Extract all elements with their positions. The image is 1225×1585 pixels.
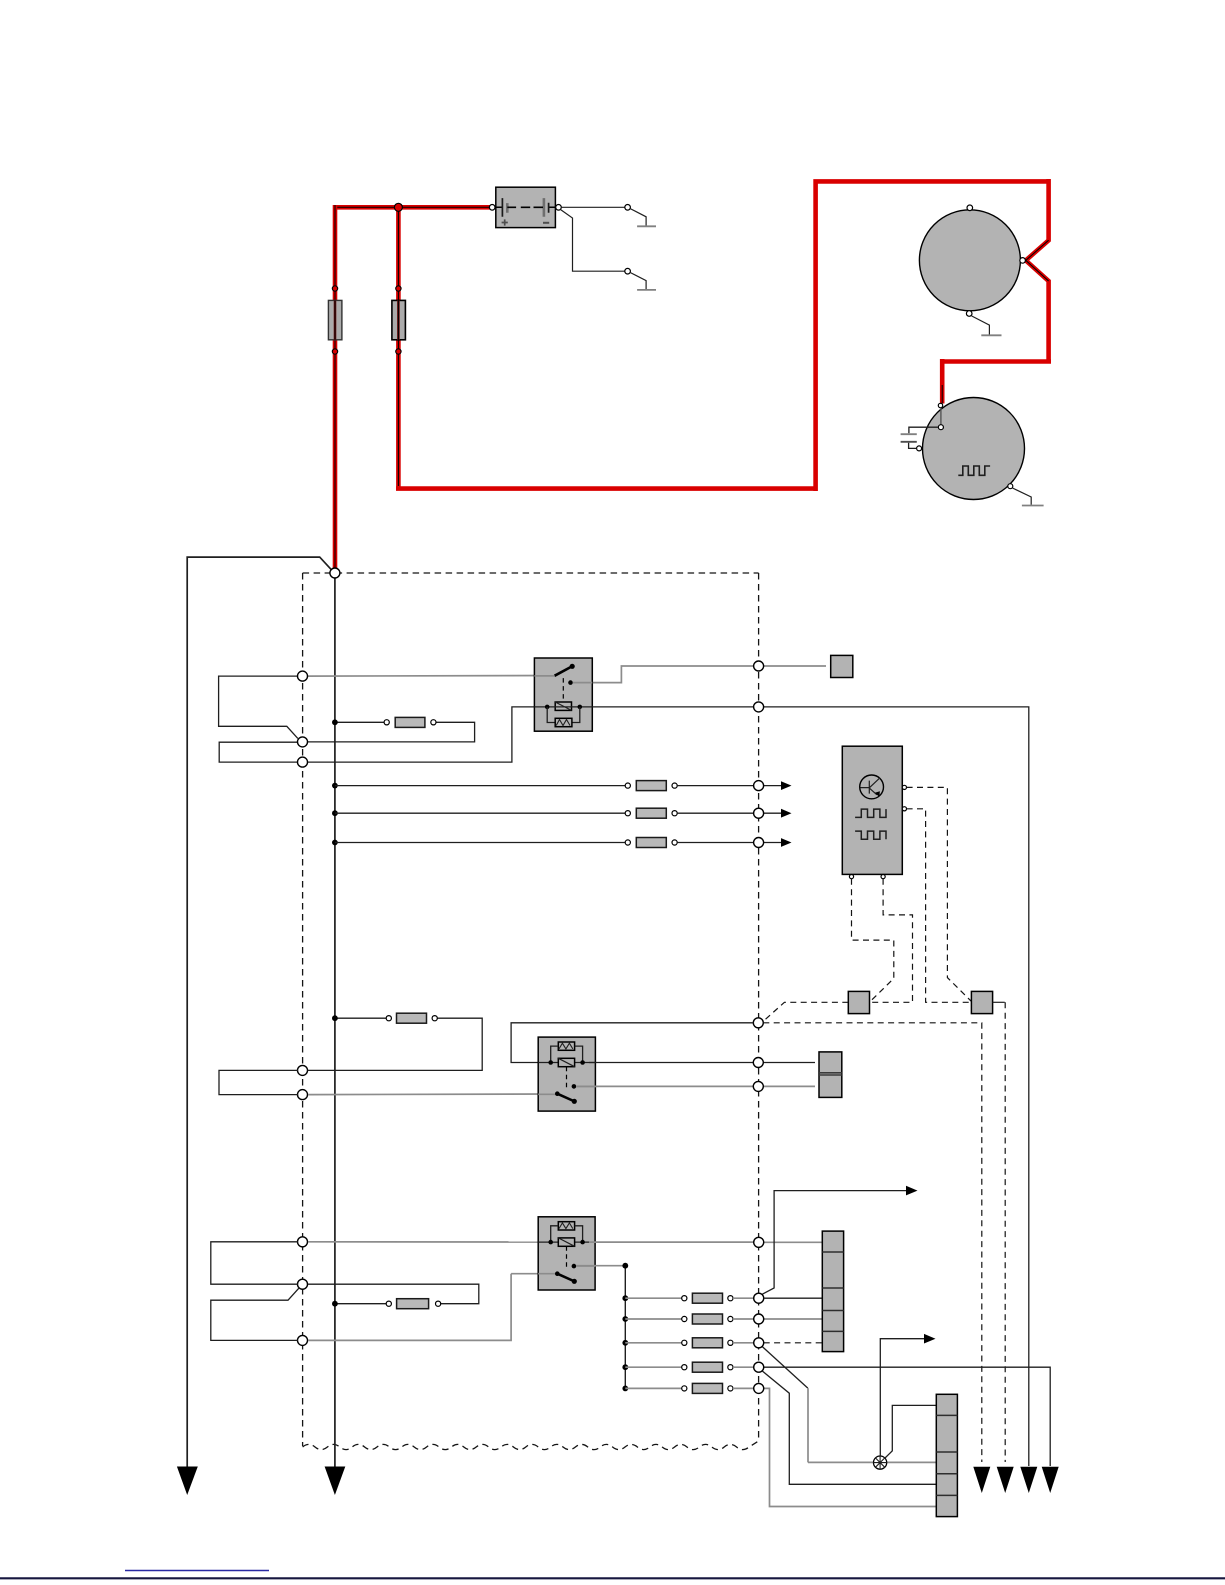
lamp H1 [874, 1456, 887, 1469]
fused line B1 [625, 1293, 753, 1303]
wire relay K1 coil to arrow 3 [592, 707, 1037, 1493]
node left edge fuse return K2 [298, 1065, 308, 1075]
connector X2 two-pole [819, 1052, 842, 1098]
node right edge K1 output [754, 661, 764, 671]
junction dots distribution [622, 1263, 628, 1392]
node left edge fuse return K1 [298, 737, 308, 747]
starter motor M1 [919, 205, 1025, 316]
wire battery negative to switch S1 [561, 206, 624, 208]
wire relay K3 coil feed [308, 1241, 545, 1243]
node B5 [754, 1383, 764, 1393]
wire fuse loop K1 [308, 722, 475, 742]
node K2 coil circuit [753, 1018, 763, 1028]
node B4 [754, 1362, 764, 1372]
wire fuse loop K3 [308, 1284, 479, 1304]
node left edge coil feed K1 [298, 757, 308, 767]
wire relay K1 contact output [572, 666, 826, 683]
wire lamp to right arrow [880, 1334, 935, 1456]
wire node B1 to up arrow [762, 1186, 917, 1294]
fused line B4 [625, 1362, 753, 1372]
fuse F3 [384, 717, 436, 727]
fused circuit line 2 [332, 808, 792, 818]
node K2 contact [753, 1081, 763, 1091]
dashed wire connector A to node [763, 1002, 848, 1021]
dashed wire node B3 to connector C cell5 [764, 1342, 823, 1344]
wire relay K1 feed [308, 675, 555, 678]
wire relay K3 contact to distribution [576, 1265, 625, 1267]
wire stub U2 left [219, 742, 297, 762]
wire connector B output down to arrow 2 [993, 1002, 1014, 1493]
junction bus dot F3 [332, 719, 338, 725]
wire node B4 to connector D cell4 [762, 1371, 936, 1484]
wire relay K2 coil right to connector [589, 1062, 815, 1064]
dashed wire node to arrow 1 [763, 1023, 990, 1493]
fuse F5 [386, 1299, 441, 1309]
wire fuse loop K2 [308, 1018, 483, 1070]
dashed enclosure top edge [303, 572, 759, 574]
junction bus dot F5 [332, 1301, 338, 1307]
fuse F4 [386, 1013, 437, 1023]
node battery input [330, 568, 340, 578]
wire stub U5 left [211, 1288, 299, 1341]
fused circuit line 1 [332, 781, 792, 791]
connector A [848, 991, 869, 1013]
fused circuit line 3 [332, 838, 792, 848]
ground for switch S1 [637, 225, 656, 227]
relay K3 [538, 1217, 595, 1290]
ground for starter motor [972, 316, 1002, 335]
wire relay K2 contact to connector [576, 1085, 815, 1087]
wire lamp branch to connector D cell1 [885, 1405, 936, 1458]
junction red node [394, 203, 402, 211]
dashed enclosure left edge [302, 573, 304, 1446]
connector C five-pole [822, 1231, 843, 1352]
ground arrow left [177, 1467, 198, 1496]
relay K2 [538, 1037, 595, 1111]
node K3 coil right [754, 1237, 764, 1247]
wire stub U1 left [219, 676, 298, 738]
wire main bus B+ [334, 578, 336, 1468]
condenser on alternator [901, 427, 939, 448]
junction bus dot F4 [332, 1015, 338, 1021]
fused line B5 [625, 1383, 753, 1393]
wire stub U4 left [211, 1242, 298, 1284]
wire distribution column [624, 1266, 626, 1389]
ground arrow bus [325, 1467, 346, 1496]
fused line B3 [625, 1338, 753, 1348]
fused line B2 [625, 1314, 753, 1324]
ground for switch S2 [637, 289, 656, 291]
dashed enclosure wavy bottom edge [303, 1441, 759, 1450]
wire node B2 to connector C cell4 [764, 1318, 823, 1320]
page rule small [125, 1570, 269, 1572]
relay K1 [534, 658, 592, 731]
fuse F2 [392, 286, 406, 354]
connector X1 [831, 655, 853, 677]
fuse F1 [328, 286, 342, 354]
wire lamp to connector D cell3 [808, 1461, 936, 1463]
wire left ground run [187, 557, 331, 1468]
node K2 coil right [753, 1058, 763, 1068]
node B3 [754, 1338, 764, 1348]
switch S1 [625, 205, 646, 227]
wire red branch 2 vertical [396, 205, 401, 489]
dashed wire K bottom pin1 to connector A [852, 879, 894, 1002]
wire battery positive feed (red) [335, 205, 492, 210]
alternator G2 [917, 398, 1025, 500]
battery G1 [489, 187, 561, 227]
wire node B3 to lamp line [762, 1347, 808, 1389]
node B1 [754, 1293, 764, 1303]
node left edge fuse return K3 [298, 1279, 308, 1289]
wire stub U3 left [219, 1070, 298, 1094]
dashed wire K clock pin to connector B [907, 787, 972, 1001]
wire node B5 to connector D cell5 [764, 1388, 937, 1506]
wire node B4 to arrow 4 [764, 1367, 1050, 1466]
wire relay K3 coil right to connector C [589, 1241, 822, 1243]
ground for alternator [1013, 488, 1044, 506]
page rule full [0, 1577, 1225, 1579]
node right edge K1 coil [754, 702, 764, 712]
switch S2 [625, 268, 646, 289]
wire relay K2 switch feed [308, 1093, 556, 1096]
wire node B1 to connector C cell3 [764, 1297, 823, 1299]
node left edge switch feed K2 [298, 1090, 308, 1100]
wire relay K1 coil feed [308, 707, 546, 762]
node B2 [754, 1314, 764, 1324]
dashed wire K bottom pin2 to connector A [869, 879, 912, 1003]
node left edge coil feed K3 [298, 1237, 308, 1247]
wire red cable loop to starter and alternator [396, 179, 1051, 491]
wire relay K2 coil feed left [511, 1023, 753, 1063]
dashed wire K pin2 to connector B [907, 809, 972, 1003]
wire red branch 1 vertical [333, 205, 338, 573]
node left edge feed K1 [298, 671, 308, 681]
wire battery negative to switch S2 [561, 210, 625, 271]
dashed enclosure right edge [758, 573, 760, 1441]
node left edge switch feed K3 [298, 1335, 308, 1345]
connector D five-pole [936, 1394, 957, 1516]
control unit K (clock) [842, 746, 906, 879]
connector B [971, 991, 992, 1013]
wire relay K3 switch feed [308, 1274, 556, 1342]
